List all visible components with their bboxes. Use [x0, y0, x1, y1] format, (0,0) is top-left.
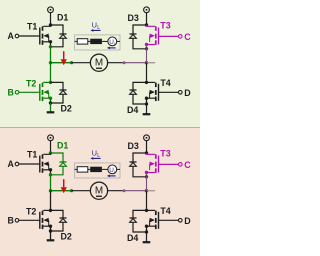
node drain T3/D3 (bottom)	[145, 151, 148, 154]
terminal D (top)	[179, 91, 183, 95]
wire source T2 to D2 node (top)	[50, 98, 52, 103]
wire T2 source lead (bottom)	[43, 225, 50, 227]
wire stub L-source (top)	[102, 40, 108, 42]
wire D4 top lead (bottom)	[133, 210, 147, 218]
node drain T3/D3 (top)	[145, 23, 148, 26]
supply terminal left (top)	[48, 7, 54, 13]
wire D2 bottom lead (top)	[51, 95, 64, 103]
wire T3 drain lead (bottom)	[147, 153, 156, 154]
node source T4 (top)	[145, 97, 148, 100]
wire stub R-L (top)	[88, 40, 90, 42]
svg-text:D4: D4	[127, 105, 138, 115]
node drain T4/D4 (top)	[145, 81, 148, 84]
ground right (bottom)	[143, 241, 151, 243]
wire D3 top lead (top)	[133, 25, 147, 34]
terminal A (bottom)	[15, 162, 19, 166]
wire T4 drain lead (bottom)	[147, 209, 156, 211]
svg-text:A: A	[8, 31, 15, 41]
node source T2 (bottom)	[49, 225, 52, 228]
svg-text:B: B	[8, 87, 14, 97]
wire D3 bottom lead (bottom)	[133, 167, 147, 177]
diode D1 (top)	[60, 34, 67, 38]
blue arrow U_L (top)	[90, 29, 100, 32]
svg-text:T4: T4	[160, 206, 170, 216]
green wire endpoint dot (top)	[70, 61, 73, 64]
panel background (bottom)	[0, 128, 200, 256]
wire motor right (bottom)	[108, 190, 124, 192]
node drain T2/D2 (bottom)	[49, 209, 52, 212]
svg-text:T4: T4	[160, 78, 170, 88]
wire gate D (top)	[159, 91, 179, 93]
wire to ground right (bottom)	[146, 232, 148, 241]
node D1 bottom (bottom)	[49, 173, 52, 176]
transistor T4 (top)	[150, 83, 159, 102]
wire T2 drain lead (bottom)	[43, 209, 50, 211]
red current arrow (bottom)	[61, 179, 67, 193]
wire gate C (bottom)	[159, 163, 179, 165]
terminal D (bottom)	[179, 219, 183, 223]
wire right to motor node (purple) (bottom)	[146, 177, 148, 191]
supply terminal left (bottom)	[48, 135, 54, 141]
wire green stub to motor terminal (top)	[51, 62, 72, 64]
wire D1 bottom lead (top)	[51, 39, 64, 47]
node drain T1/D1 (bottom)	[49, 151, 52, 154]
wire D4 bottom lead (top)	[133, 95, 147, 104]
transistor T2 (top)	[40, 83, 49, 102]
terminal C (top)	[179, 35, 183, 39]
wire source to D1 node (top)	[50, 42, 52, 47]
label U_L (top)	[92, 20, 101, 31]
wire stub box left (top)	[75, 40, 78, 42]
wire D1 top lead (bottom)	[51, 153, 64, 162]
induced voltage source U_ind (bottom)	[108, 165, 117, 174]
wire motor right (top)	[108, 62, 124, 64]
ground right (top)	[143, 113, 151, 115]
svg-text:D1: D1	[57, 140, 68, 150]
wire source T3 to D3 node (top)	[146, 45, 148, 49]
transistor T2 (bottom)	[40, 211, 49, 230]
diode D2 (top)	[60, 90, 67, 94]
wire T1 source lead (bottom)	[43, 169, 50, 171]
svg-text:T1: T1	[27, 22, 37, 32]
wire purple to right branch (top)	[124, 62, 147, 64]
wire T1 drain lead (bottom)	[43, 153, 50, 154]
svg-text:D3: D3	[128, 141, 139, 151]
wire supply right (bottom)	[146, 140, 148, 153]
node D4 bottom (bottom)	[145, 230, 148, 233]
transistor T4 (bottom)	[150, 211, 159, 230]
terminal B (top)	[15, 91, 19, 95]
wire T2 source lead (top)	[43, 97, 50, 99]
resistor R (bottom)	[77, 167, 88, 172]
wire to ground left (top)	[50, 103, 52, 111]
wire stub box right (bottom)	[117, 168, 120, 170]
wire T4 drain lead (top)	[147, 81, 156, 83]
motor M (top)	[90, 54, 107, 71]
wire motor left (bottom)	[72, 190, 91, 192]
svg-text:U: U	[92, 148, 97, 157]
induced voltage source U_ind (top)	[108, 37, 117, 46]
node drain T4/D4 (bottom)	[145, 209, 148, 212]
label U_L (bottom)	[92, 148, 101, 159]
node D1 bottom (top)	[49, 45, 52, 48]
wire D1 bottom lead (bottom)	[51, 167, 64, 175]
svg-text:C: C	[184, 32, 191, 42]
transistor T3 (top)	[150, 26, 159, 45]
resistor R (top)	[77, 39, 88, 44]
node source T2 (top)	[49, 97, 52, 100]
node motor right (bottom)	[145, 189, 148, 192]
wire D1 top lead (top)	[51, 25, 64, 34]
supply terminal right (bottom)	[144, 135, 150, 141]
node D4 bottom (top)	[145, 102, 148, 105]
wire source T2 to D2 node (bottom)	[50, 226, 52, 231]
svg-text:T3: T3	[160, 149, 170, 159]
wire motor node to T2 (top)	[50, 63, 52, 83]
node source T1 (bottom)	[49, 168, 52, 171]
wire stub box right (top)	[117, 40, 120, 42]
wire D4 top lead (top)	[133, 82, 147, 90]
wire gate A (top)	[19, 35, 40, 37]
node drain T2/D2 (top)	[49, 81, 52, 84]
ground left (bottom)	[47, 239, 55, 241]
svg-text:D2: D2	[61, 232, 72, 242]
svg-text:T1: T1	[27, 150, 37, 160]
node source T3 (bottom)	[145, 171, 148, 174]
svg-text:A: A	[8, 159, 15, 169]
wire supply left (top)	[50, 12, 52, 25]
node motor left (top)	[49, 61, 52, 64]
wire T1 source lead (top)	[43, 41, 50, 43]
wire T4 source lead (bottom)	[147, 225, 156, 227]
purple wire endpoint dot (bottom)	[123, 189, 126, 192]
svg-text:D: D	[184, 216, 191, 226]
wire gate D (bottom)	[159, 219, 179, 221]
wire T2 drain lead (top)	[43, 81, 50, 83]
equivalent circuit box (bottom)	[75, 163, 120, 178]
blue arrow U_ind (bottom)	[107, 175, 116, 178]
diode D4 (bottom)	[130, 218, 137, 222]
wire D2 top lead (bottom)	[51, 210, 64, 218]
blue arrow U_ind (top)	[107, 47, 116, 50]
wire left to motor node (green) (bottom)	[50, 175, 52, 191]
wire gate B (top)	[19, 91, 40, 93]
svg-text:B: B	[8, 215, 14, 225]
terminal C (bottom)	[179, 163, 183, 167]
transistor T1 (bottom)	[40, 154, 49, 173]
terminal B (bottom)	[15, 219, 19, 223]
diode D3 (top)	[130, 34, 137, 38]
wire gate C (top)	[159, 35, 179, 37]
wire green stub to motor terminal (bottom)	[51, 190, 72, 192]
svg-text:D: D	[184, 88, 191, 98]
wire to ground right (top)	[146, 104, 148, 113]
node motor left (bottom)	[49, 189, 52, 192]
inductor L (bottom)	[90, 167, 102, 172]
diode D2 (bottom)	[60, 218, 67, 222]
svg-text:T2: T2	[26, 78, 36, 88]
blue arrow U_L (bottom)	[90, 157, 100, 160]
svg-text:M: M	[95, 58, 103, 69]
node drain T1/D1 (top)	[49, 23, 52, 26]
node D3 bottom (top)	[145, 47, 148, 50]
supply terminal right (top)	[144, 7, 150, 13]
equivalent circuit box (top)	[75, 35, 120, 50]
svg-text:M: M	[95, 186, 103, 197]
gray stub right of node (top)	[147, 62, 155, 64]
svg-text:D3: D3	[128, 13, 139, 23]
wire motor node to T4 (top)	[146, 63, 148, 83]
svg-text:T2: T2	[26, 206, 36, 216]
node D3 bottom (bottom)	[145, 175, 148, 178]
wire supply left (bottom)	[50, 140, 52, 153]
wire D2 bottom lead (bottom)	[51, 223, 64, 231]
ground left (top)	[47, 111, 55, 113]
wire D2 top lead (top)	[51, 82, 64, 90]
green wire endpoint dot (bottom)	[70, 189, 73, 192]
wire to ground left (bottom)	[50, 231, 52, 239]
wire D4 bottom lead (bottom)	[133, 223, 147, 232]
wire T1 drain lead (top)	[43, 25, 50, 26]
wire stub L-source (bottom)	[102, 168, 108, 170]
wire source T3 to D3 node (bottom)	[146, 173, 148, 177]
transistor T1 (top)	[40, 26, 49, 45]
node source T3 (top)	[145, 43, 148, 46]
svg-text:D4: D4	[127, 233, 138, 243]
purple wire endpoint dot (top)	[123, 61, 126, 64]
wire motor left (top)	[72, 62, 91, 64]
wire left to motor node (green) (top)	[50, 47, 52, 63]
svg-text:C: C	[184, 160, 191, 170]
transistor T3 (bottom)	[150, 154, 159, 173]
wire supply right (top)	[146, 12, 148, 25]
panel background (top)	[0, 0, 200, 128]
svg-text:D2: D2	[61, 104, 72, 114]
node source T4 (bottom)	[145, 225, 148, 228]
wire stub R-L (bottom)	[88, 168, 90, 170]
node source T1 (top)	[49, 40, 52, 43]
wire gate A (bottom)	[19, 163, 40, 165]
wire purple to right branch (bottom)	[124, 190, 147, 192]
node D2 bottom (top)	[49, 101, 52, 104]
diode D4 (top)	[130, 90, 137, 94]
wire source T4 to D4 node (bottom)	[146, 226, 148, 232]
gray stub right of node (bottom)	[147, 190, 155, 192]
wire T4 source lead (top)	[147, 97, 156, 99]
diode D3 (bottom)	[130, 162, 137, 166]
motor M (bottom)	[90, 182, 107, 199]
terminal A (top)	[15, 34, 19, 38]
wire T3 source lead (bottom)	[147, 172, 156, 174]
wire source T4 to D4 node (top)	[146, 98, 148, 104]
inductor L (top)	[90, 39, 102, 44]
wire motor node to T4 (bottom)	[146, 191, 148, 211]
wire right to motor node (purple) (top)	[146, 49, 148, 63]
wire T3 drain lead (top)	[147, 25, 156, 26]
wire gate B (bottom)	[19, 219, 40, 221]
panel seam	[0, 127, 200, 129]
wire motor node to T2 (bottom)	[50, 191, 52, 211]
node D2 bottom (bottom)	[49, 229, 52, 232]
diode D1 (bottom)	[60, 162, 67, 166]
wire D3 bottom lead (top)	[133, 39, 147, 49]
wire stub box left (bottom)	[75, 168, 78, 170]
svg-text:T3: T3	[160, 21, 170, 31]
node motor right (top)	[145, 61, 148, 64]
svg-text:D1: D1	[57, 12, 68, 22]
wire T3 source lead (top)	[147, 44, 156, 46]
svg-text:U: U	[92, 20, 97, 29]
wire source to D1 node (bottom)	[50, 170, 52, 175]
red current arrow (top)	[61, 51, 67, 65]
wire D3 top lead (bottom)	[133, 153, 147, 162]
